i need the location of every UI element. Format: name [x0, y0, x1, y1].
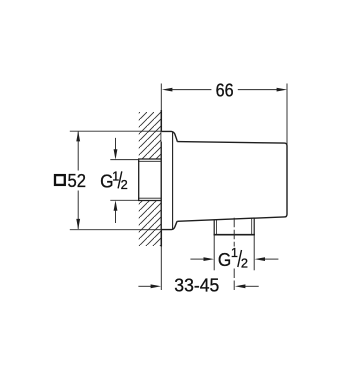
- outlet dim arrow right: [255, 257, 279, 261]
- svg-text:1: 1: [231, 245, 238, 260]
- outlet dim arrow left: [190, 257, 214, 261]
- thread dim arrow up: [114, 200, 118, 223]
- 52 dim arrow up: [76, 131, 80, 142]
- 33-45 dim arrow left: [138, 284, 161, 288]
- svg-text:G: G: [218, 249, 231, 270]
- 66 dim line with arrows: [162, 88, 287, 92]
- outlet dim extension right: [253, 236, 255, 271]
- wall hatching lower band: [139, 201, 162, 247]
- label G 1/2 (wall thread): [100, 169, 128, 192]
- 52 extension line bottom: [70, 229, 162, 231]
- svg-text:33-45: 33-45: [174, 275, 219, 296]
- flange body white fill: [162, 132, 173, 230]
- 52 extension line top: [70, 130, 162, 132]
- thread dim extension lines: [110, 159, 138, 161]
- outlet square sides: [214, 218, 255, 235]
- 52 dim arrow down: [76, 219, 80, 230]
- 33-45 dim arrow right: [235, 284, 259, 288]
- 52 dim line upper segment: [77, 132, 79, 171]
- square symbol for 52: [55, 175, 65, 185]
- escutcheon flange outline: [161, 131, 177, 141]
- label G 1/2 (outlet): [218, 245, 248, 271]
- svg-text:2: 2: [241, 256, 248, 271]
- wall face line (also 66/33-45 extension line): [160, 84, 162, 291]
- 66 dim extension right (front face extended): [286, 84, 288, 146]
- flange front crease: [172, 132, 174, 229]
- thread stub G1/2 in wall: [138, 159, 161, 201]
- outlet bottom edge: [214, 234, 255, 236]
- thread dim arrow down: [114, 138, 118, 160]
- wall hatching upper band: [139, 112, 162, 159]
- flange bottom edge: [161, 221, 177, 229]
- svg-text:1: 1: [112, 169, 119, 184]
- svg-text:2: 2: [121, 177, 128, 192]
- outlet centerline: [233, 218, 235, 247]
- 52 dim line lower segment: [77, 191, 79, 229]
- body cone outline: [177, 142, 287, 222]
- outlet dim extension left: [213, 236, 215, 271]
- svg-text:52: 52: [68, 170, 87, 191]
- svg-text:66: 66: [216, 80, 234, 101]
- flange top edge: [161, 131, 177, 141]
